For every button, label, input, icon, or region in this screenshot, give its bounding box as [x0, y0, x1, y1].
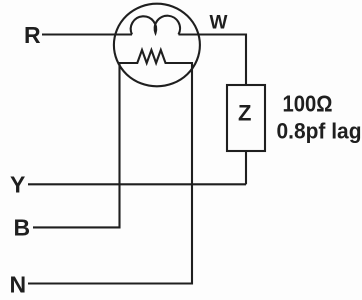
- impedance Z1 box: [227, 85, 265, 151]
- svg-text:Z: Z: [238, 100, 251, 125]
- wire: pressure coil left end down to B line: [33, 62, 120, 227]
- wire: Z bottom to Y line: [245, 151, 247, 184]
- wattmeter W (meter circle): [114, 4, 200, 87]
- wire: R phase to current coil: [42, 33, 132, 35]
- svg-text:W: W: [210, 12, 228, 33]
- svg-text:100Ω: 100Ω: [283, 91, 333, 117]
- svg-text:0.8pf lag: 0.8pf lag: [277, 119, 362, 144]
- wire: Y phase horizontal: [28, 183, 246, 185]
- wire: current coil to node W and down to Z: [179, 35, 247, 86]
- svg-text:Y: Y: [10, 172, 25, 198]
- pressure coil (resistor) inside wattmeter: [119, 50, 192, 63]
- wire: pressure coil right end down to N line: [28, 62, 192, 284]
- svg-text:R: R: [24, 22, 41, 48]
- current coil (inductor) inside wattmeter: [131, 16, 180, 35]
- svg-text:B: B: [14, 214, 31, 240]
- svg-text:N: N: [10, 272, 27, 298]
